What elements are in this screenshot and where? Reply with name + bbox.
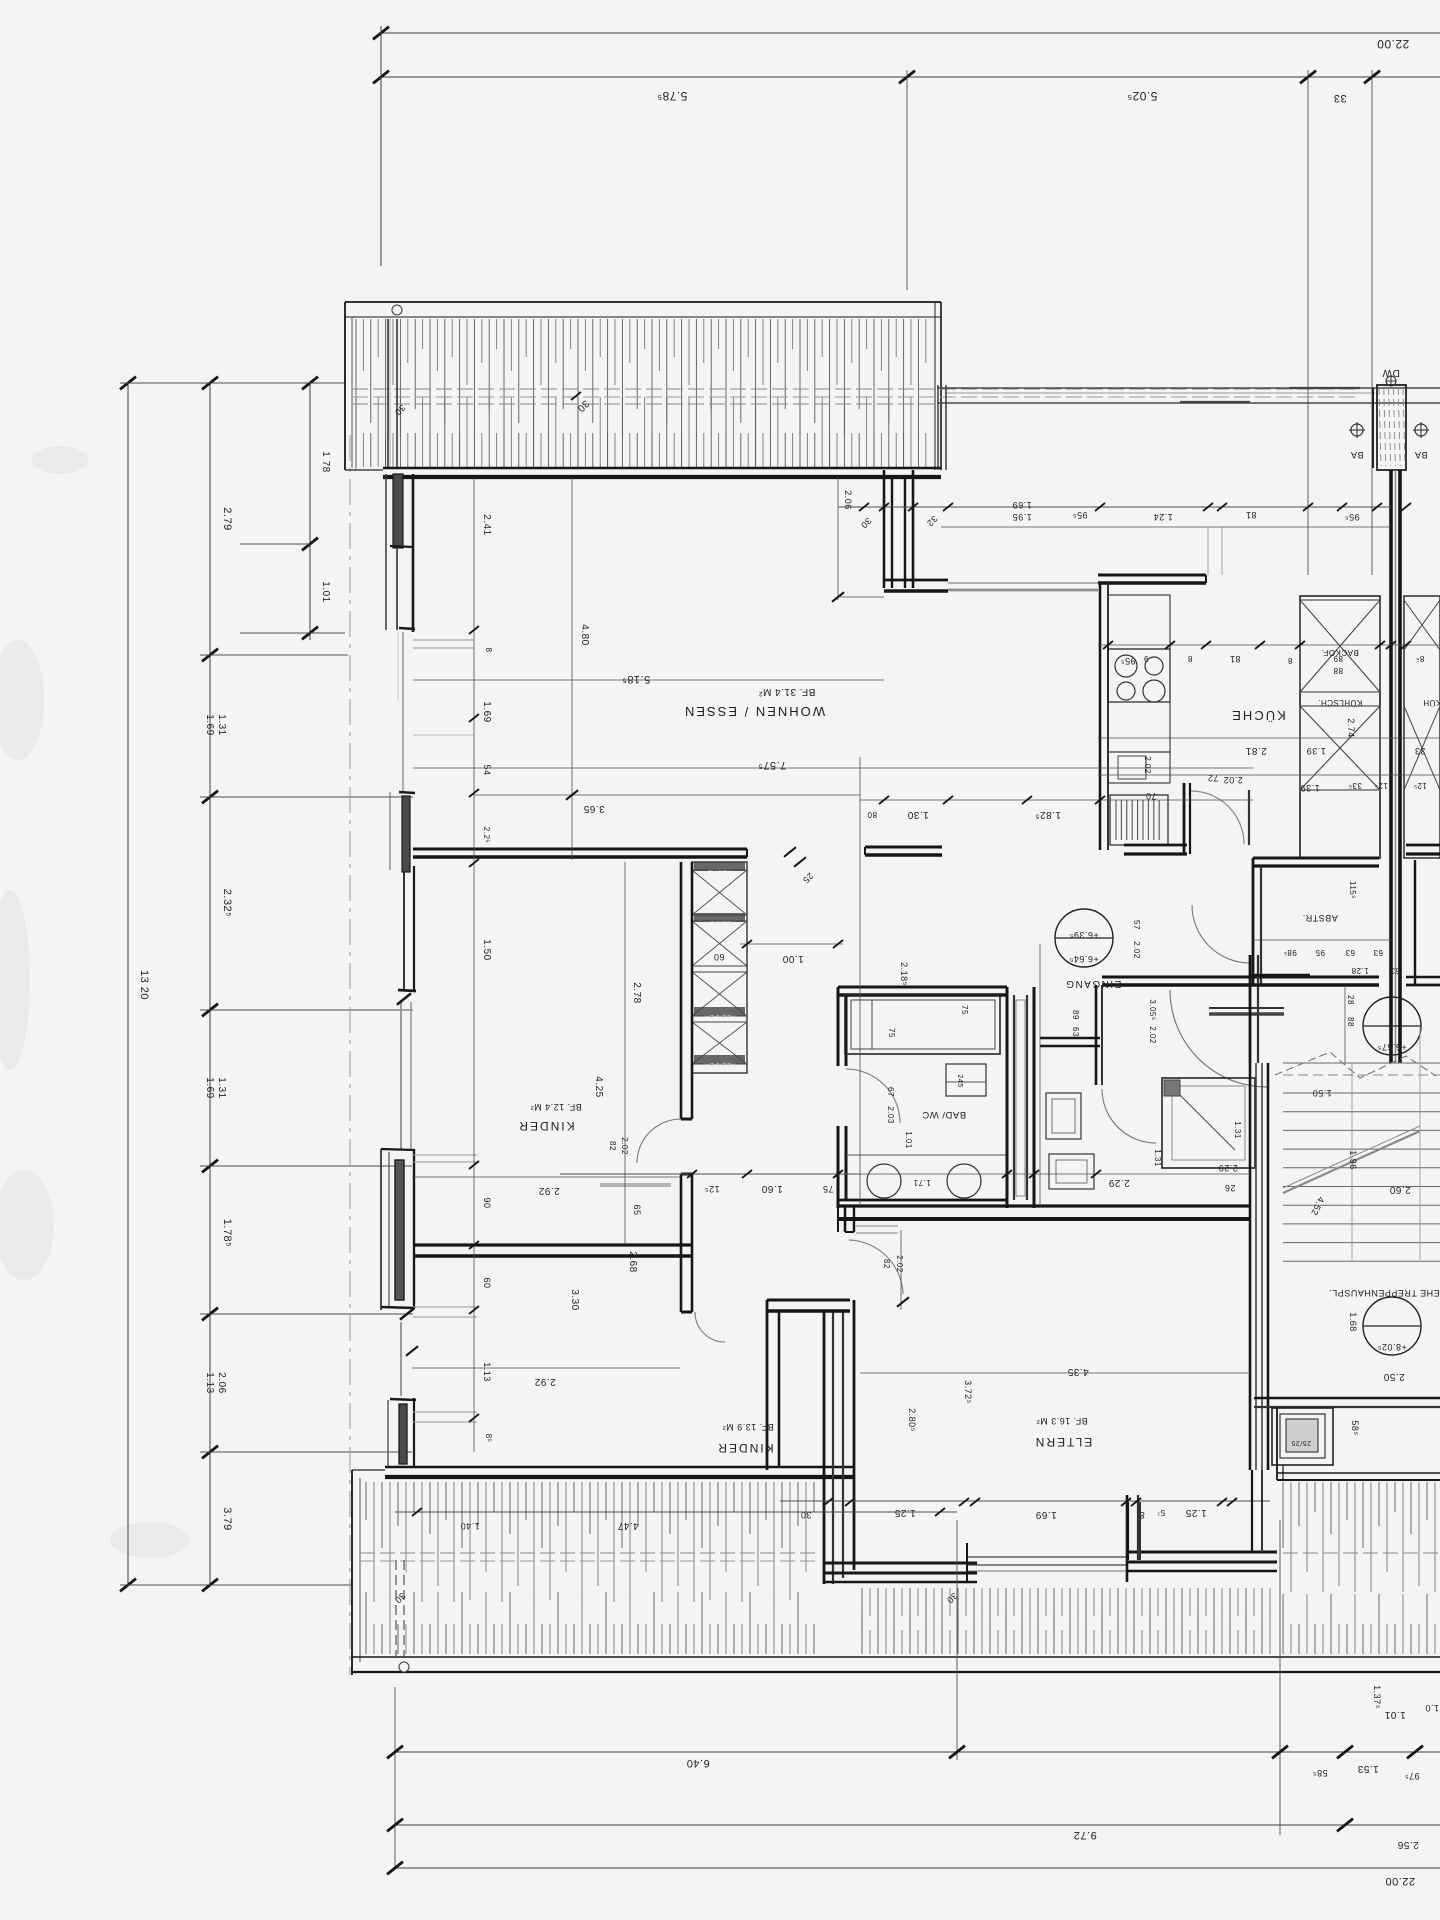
threshold gray band — [600, 1183, 671, 1187]
balcony south dashed rail — [360, 1552, 820, 1554]
bath wc cistern — [946, 1064, 986, 1096]
kitchen stove — [1108, 649, 1170, 702]
stair level circle 8.02 — [1363, 1297, 1421, 1355]
svg-text:80: 80 — [867, 810, 877, 819]
svg-text:1.40: 1.40 — [460, 1521, 480, 1531]
svg-text:1.13: 1.13 — [482, 1362, 492, 1382]
svg-text:EINGANG: EINGANG — [1065, 978, 1122, 989]
svg-text:65: 65 — [632, 1204, 642, 1215]
svg-text:1.69: 1.69 — [1035, 1509, 1056, 1520]
svg-text:ELTERN: ELTERN — [1034, 1435, 1092, 1449]
svg-text:2.02: 2.02 — [895, 1255, 904, 1273]
svg-text:26: 26 — [1224, 1183, 1235, 1193]
wall south of dining toward kitchen — [884, 579, 948, 582]
svg-text:1.30: 1.30 — [907, 809, 928, 820]
svg-text:1.69: 1.69 — [204, 1077, 215, 1098]
bottom extension x395 — [394, 1687, 396, 1870]
bathroom walls — [838, 986, 1007, 989]
svg-text:1.13: 1.13 — [204, 1372, 215, 1393]
scan noise — [0, 446, 190, 1558]
svg-text:98⁵: 98⁵ — [1283, 948, 1297, 957]
svg-text:3.65: 3.65 — [583, 803, 604, 814]
svg-text:1.95: 1.95 — [1012, 512, 1032, 522]
svg-text:BAD/ WC: BAD/ WC — [922, 1109, 966, 1120]
svg-text:7.57⁵: 7.57⁵ — [758, 759, 786, 771]
svg-text:1.0: 1.0 — [1425, 1703, 1439, 1713]
living room 7.57 — [413, 767, 1253, 769]
bath door arc — [846, 1069, 900, 1123]
svg-text:25/25: 25/25 — [1291, 1439, 1311, 1446]
svg-text:115⁵: 115⁵ — [1348, 881, 1357, 899]
svg-text:3.79: 3.79 — [221, 1507, 233, 1530]
dimension line 5.78-5 / 5.02-5 top — [381, 76, 1440, 78]
svg-text:57: 57 — [1132, 920, 1141, 930]
dim 28 86 vertical — [1344, 985, 1346, 1063]
svg-text:81: 81 — [1229, 654, 1240, 664]
svg-text:2.68: 2.68 — [627, 1251, 638, 1272]
extension lines left horizontals — [120, 382, 345, 384]
balcony south dim line — [395, 1511, 957, 1513]
svg-text:2.79: 2.79 — [221, 507, 233, 530]
svg-text:63: 63 — [1071, 1027, 1080, 1037]
eltern door arc — [849, 1240, 903, 1294]
stairwell south wall — [1254, 1397, 1440, 1400]
svg-text:2.18⁵: 2.18⁵ — [899, 962, 909, 986]
south wall eltern bay west corner — [824, 1562, 977, 1565]
chimney — [1272, 1408, 1333, 1465]
svg-text:88: 88 — [1333, 666, 1343, 675]
svg-text:8⁵: 8⁵ — [1416, 654, 1425, 663]
svg-text:3.30: 3.30 — [569, 1289, 580, 1310]
living room south wall east segment — [865, 846, 942, 849]
bathtub — [845, 995, 1000, 1054]
corridor dim line — [560, 1173, 860, 1175]
balcony south hatch middle under bay — [861, 1588, 863, 1636]
svg-text:82: 82 — [608, 1141, 617, 1151]
svg-text:EINZEL- MASSE SIEHE TREPPENHAU: EINZEL- MASSE SIEHE TREPPENHAUSPL. — [1329, 1288, 1440, 1298]
shaft left edge accent — [1372, 388, 1374, 468]
svg-text:KINDER: KINDER — [716, 1441, 773, 1455]
svg-text:89: 89 — [1333, 654, 1343, 663]
balcony railing dashed lines — [352, 388, 1355, 390]
kitchen dim 2.81 — [1098, 737, 1440, 739]
eltern north-west corner walls — [767, 1299, 850, 1302]
svg-text:5.78⁵: 5.78⁵ — [657, 89, 688, 103]
svg-text:1.60: 1.60 — [761, 1183, 782, 1194]
svg-text:BF. 13.9 M²: BF. 13.9 M² — [722, 1422, 774, 1432]
BA fixture left — [1351, 424, 1363, 436]
kitchen north wall — [1098, 574, 1206, 577]
wc door arc — [1102, 1089, 1156, 1143]
west wall faint segment — [402, 632, 404, 792]
svg-text:1.50: 1.50 — [1312, 1088, 1332, 1098]
balcony slab bottom left piece — [345, 469, 383, 471]
svg-text:2.60: 2.60 — [1389, 1184, 1410, 1195]
north facade line accents — [1180, 401, 1250, 403]
svg-text:95⁵: 95⁵ — [1344, 512, 1359, 522]
eltern interior dim line south — [780, 1500, 1270, 1502]
svg-text:8: 8 — [1187, 654, 1192, 663]
svg-text:+8.02⁵: +8.02⁵ — [1377, 1342, 1407, 1352]
svg-text:1.31: 1.31 — [1233, 1121, 1242, 1139]
kitchen appliance 70 — [1110, 795, 1168, 845]
svg-text:60: 60 — [713, 952, 724, 962]
balcony south west edge — [351, 1470, 353, 1675]
svg-text:95: 95 — [1315, 948, 1325, 957]
svg-text:KÜCHE: KÜCHE — [1230, 708, 1286, 723]
svg-text:1.50: 1.50 — [481, 939, 492, 960]
svg-text:1.53: 1.53 — [1357, 1763, 1378, 1774]
bottom dim 22.00 — [395, 1867, 1440, 1869]
bottom dim 9.72 — [395, 1824, 1440, 1826]
west wall of eltern bay — [823, 1311, 826, 1584]
west wall gray pier — [400, 1002, 402, 1150]
svg-text:2.74: 2.74 — [1346, 718, 1356, 738]
svg-text:12⁵: 12⁵ — [1374, 781, 1388, 790]
corridor west wall — [680, 1174, 683, 1312]
north facade upper wall right part (sill lines) — [937, 387, 1440, 389]
svg-text:2.78: 2.78 — [631, 982, 642, 1003]
svg-text:4.35: 4.35 — [1067, 1366, 1088, 1377]
balcony south bottom edge — [352, 1656, 1440, 1658]
svg-text:2.80⁵: 2.80⁵ — [907, 1408, 917, 1432]
extension line x907 — [906, 70, 908, 290]
entrance level circle — [1055, 909, 1113, 967]
svg-text:81: 81 — [1245, 510, 1256, 520]
svg-text:KINDER: KINDER — [517, 1119, 574, 1133]
svg-text:2.29: 2.29 — [1108, 1177, 1129, 1188]
balcony north west edge — [344, 302, 346, 470]
svg-text:BF. 31.4 M²: BF. 31.4 M² — [759, 686, 816, 697]
svg-text:75: 75 — [960, 1005, 969, 1015]
kitchen dim line y645 — [1098, 644, 1440, 646]
svg-text:8: 8 — [1287, 656, 1292, 665]
kinder2 door arc — [695, 1312, 725, 1342]
hall shaft box — [1162, 1078, 1255, 1168]
hall south wall — [838, 1204, 1250, 1207]
svg-text:5.02⁵: 5.02⁵ — [1127, 89, 1158, 103]
svg-text:1.25: 1.25 — [894, 1507, 915, 1518]
svg-text:1.01: 1.01 — [1384, 1709, 1405, 1720]
balcony south hatch left — [365, 1482, 367, 1520]
property dash-dot line — [349, 435, 351, 1675]
east wall of living room — [883, 470, 886, 588]
closet column between living and kinder1 — [692, 862, 747, 1073]
vertical chain x860 — [859, 757, 861, 1206]
svg-text:2.03: 2.03 — [886, 1106, 895, 1124]
bath basin counter — [846, 1154, 1007, 1156]
svg-text:2.92: 2.92 — [534, 1376, 555, 1387]
svg-text:82: 82 — [882, 1259, 891, 1269]
svg-text:12⁵: 12⁵ — [704, 1184, 719, 1194]
kitchen door jambs — [1248, 790, 1250, 845]
balcony north hatch — [355, 319, 357, 469]
svg-text:1.39: 1.39 — [1306, 746, 1326, 756]
west window 3 — [390, 1399, 416, 1400]
stair treads — [1283, 1092, 1440, 1094]
svg-text:63: 63 — [1345, 948, 1355, 957]
extension line x1372 — [1371, 70, 1373, 575]
mirror unit kitchen south wall — [1406, 844, 1440, 847]
extension line x1308 — [1307, 70, 1309, 575]
svg-text:6.40: 6.40 — [686, 1757, 709, 1769]
svg-text:1.25: 1.25 — [1185, 1507, 1206, 1518]
wc washbasin — [1046, 1093, 1081, 1139]
svg-text:ABSTR.: ABSTR. — [1302, 913, 1338, 923]
eltern bay2 west jamb — [1127, 1502, 1129, 1560]
balcony north slab edge — [345, 301, 941, 303]
svg-text:1.00: 1.00 — [782, 953, 803, 964]
svg-text:2.56: 2.56 — [1397, 1839, 1418, 1850]
stair west wall — [1249, 1063, 1252, 1470]
svg-text:3.05⁵: 3.05⁵ — [1148, 999, 1157, 1020]
hall vertical chain — [1039, 944, 1041, 1206]
kitchen south wall — [1124, 844, 1187, 847]
svg-text:5⁷: 5⁷ — [1157, 1508, 1165, 1517]
svg-text:1.69: 1.69 — [481, 701, 492, 722]
stairwell west wall upper — [1249, 955, 1252, 1063]
svg-text:1.31: 1.31 — [216, 714, 227, 735]
stair level circle — [1363, 997, 1421, 1055]
kinder width dims 2.92 — [412, 1176, 680, 1178]
hall door arc to kitchen zone — [1192, 905, 1250, 963]
dim 1.00 corridor top — [740, 943, 843, 945]
svg-text:97⁵: 97⁵ — [1404, 1771, 1419, 1781]
svg-text:90: 90 — [482, 1197, 492, 1208]
svg-text:KLEIDER: KLEIDER — [704, 920, 735, 927]
shaft right of bath — [1006, 987, 1009, 1208]
dim line y795 with 3.65 — [474, 794, 860, 796]
extension line x381 — [380, 26, 382, 266]
living room width dim — [413, 679, 884, 681]
svg-text:1.24: 1.24 — [1153, 512, 1173, 522]
svg-text:22.00: 22.00 — [1377, 37, 1410, 51]
svg-text:60: 60 — [482, 1277, 492, 1288]
balcony south corner circle — [399, 1662, 409, 1672]
svg-text:2.92: 2.92 — [538, 1185, 559, 1196]
svg-text:2.50: 2.50 — [1383, 1371, 1404, 1382]
kitchen sink — [1108, 752, 1170, 783]
svg-text:67: 67 — [886, 1087, 895, 1097]
svg-text:4.80: 4.80 — [579, 624, 590, 645]
svg-text:4.25: 4.25 — [593, 1076, 604, 1097]
kitchen dims lower — [1098, 774, 1440, 776]
svg-text:1.31: 1.31 — [216, 1077, 227, 1098]
svg-text:2.02: 2.02 — [1223, 775, 1243, 785]
entrance door threshold — [1209, 1007, 1284, 1009]
svg-text:+6.67⁵: +6.67⁵ — [1377, 1042, 1407, 1052]
svg-text:1.68: 1.68 — [1348, 1312, 1358, 1332]
svg-text:58⁵: 58⁵ — [1312, 1768, 1327, 1778]
balcony south hatch right — [1282, 1482, 1284, 1548]
svg-text:33: 33 — [1333, 92, 1346, 104]
svg-text:13 20: 13 20 — [138, 970, 150, 1000]
svg-text:+6.64⁵: +6.64⁵ — [1069, 954, 1099, 964]
dim line y507 north — [838, 506, 1391, 508]
sill lines west windows — [413, 1154, 477, 1156]
svg-text:1.01: 1.01 — [904, 1131, 913, 1149]
svg-text:33: 33 — [1414, 746, 1425, 756]
partition kinder1 kinder2 — [413, 1243, 692, 1246]
svg-text:KÜH: KÜH — [1423, 698, 1440, 707]
svg-text:KLEIDER: KLEIDER — [704, 1014, 735, 1021]
oven fridge closet — [1300, 596, 1380, 858]
interior chain x572 — [571, 478, 573, 860]
svg-text:1.82⁵: 1.82⁵ — [1035, 809, 1061, 820]
storage room walls — [1253, 857, 1379, 860]
svg-text:245: 245 — [956, 1074, 963, 1087]
svg-text:75: 75 — [822, 1184, 833, 1194]
svg-text:2.81: 2.81 — [1245, 745, 1266, 756]
svg-text:1.31: 1.31 — [1153, 1149, 1162, 1167]
svg-text:63: 63 — [1373, 948, 1383, 957]
stair landing lines — [1283, 1062, 1440, 1064]
bottom extension x1280 — [1279, 1520, 1281, 1835]
svg-text:REGAL: REGAL — [708, 869, 733, 876]
svg-text:2.02: 2.02 — [1132, 941, 1141, 959]
recess dim 2.06 — [837, 477, 839, 600]
interior chain x474 — [473, 478, 475, 1452]
svg-text:+6.39⁵: +6.39⁵ — [1069, 930, 1099, 940]
wall connecting balcony corner — [937, 385, 939, 470]
kitchen counter mid — [1108, 702, 1170, 752]
dimension chain 13.20 left outer — [127, 383, 129, 1585]
svg-text:2.02: 2.02 — [620, 1137, 629, 1155]
chimney nook wall — [1276, 1408, 1278, 1480]
svg-text:1.78⁵: 1.78⁵ — [221, 1219, 233, 1247]
svg-text:5.18⁵: 5.18⁵ — [622, 673, 650, 685]
svg-text:KLEIDER: KLEIDER — [704, 1062, 735, 1069]
svg-text:2.29: 2.29 — [1218, 1163, 1238, 1173]
balcony north east edge — [934, 302, 936, 470]
dim line y800 — [860, 799, 1253, 801]
svg-text:9.72: 9.72 — [1073, 1829, 1096, 1841]
svg-text:1 78: 1 78 — [320, 451, 331, 472]
south wall eltern bay east corner — [1127, 1551, 1277, 1554]
svg-text:4.47: 4.47 — [617, 1520, 638, 1531]
svg-text:1.96: 1.96 — [1348, 1150, 1358, 1170]
wall thickness tick 25 — [784, 847, 796, 857]
svg-text:2.06: 2.06 — [216, 1372, 227, 1393]
svg-text:3.72⁵: 3.72⁵ — [963, 1380, 973, 1404]
DW vent shaft — [1377, 385, 1406, 470]
svg-text:95⁵: 95⁵ — [1120, 656, 1135, 666]
svg-text:1.37⁵: 1.37⁵ — [1372, 1685, 1382, 1709]
dim line y527 second — [941, 526, 1391, 528]
exterior wall north of living room — [383, 467, 941, 470]
svg-text:1.69: 1.69 — [1012, 500, 1032, 510]
dimension chain left inner — [209, 383, 211, 1585]
svg-text:2.41: 2.41 — [481, 514, 492, 535]
kitchen door arc — [1191, 791, 1244, 844]
svg-text:28: 28 — [1346, 995, 1355, 1005]
svg-text:12⁵: 12⁵ — [1413, 781, 1427, 790]
eltern west jamb — [844, 1206, 847, 1232]
svg-text:89: 89 — [1071, 1010, 1080, 1020]
svg-text:WOHNEN / ESSEN: WOHNEN / ESSEN — [683, 704, 825, 719]
dim line y1174 extension to bath — [860, 1173, 1250, 1175]
balcony corner circle — [392, 305, 402, 315]
entrance door arc — [1170, 990, 1267, 1087]
svg-text:8⁵: 8⁵ — [484, 1434, 493, 1443]
balcony door post — [387, 319, 389, 468]
svg-text:70: 70 — [1145, 791, 1156, 801]
stair vertical guide — [1351, 1063, 1353, 1260]
wc wall — [1040, 1037, 1100, 1040]
svg-text:1.01: 1.01 — [320, 581, 331, 602]
svg-text:72: 72 — [1207, 773, 1218, 783]
party wall — [1389, 470, 1393, 1063]
stair zigzag cut — [1275, 1052, 1436, 1078]
dimension line 22.00 overall top — [381, 32, 1440, 34]
svg-text:75: 75 — [887, 1028, 896, 1038]
balcony south door dashes — [395, 1560, 397, 1656]
dimension chain 1.78 / 1.01 — [309, 383, 311, 640]
mirror closet right unit — [1404, 596, 1440, 858]
south thin wall east — [1277, 1472, 1440, 1474]
kitchen west wall — [1099, 583, 1102, 850]
svg-text:2.32⁵: 2.32⁵ — [221, 889, 233, 917]
living room south wall west segment — [413, 848, 747, 851]
west wall window 2 — [399, 792, 415, 793]
bottom extension x957 — [956, 1520, 958, 1760]
west wall window 1 — [385, 474, 387, 630]
west wall gray pier 2 — [400, 1322, 402, 1396]
abstr dims — [1253, 939, 1391, 941]
svg-text:1.71: 1.71 — [913, 1178, 931, 1187]
kitchen window reveal lines — [1207, 527, 1209, 575]
BA fixture right — [1415, 424, 1427, 436]
svg-text:1.28: 1.28 — [1351, 966, 1369, 975]
svg-text:63: 63 — [1390, 966, 1400, 975]
eltern dims — [860, 1372, 1250, 1374]
svg-text:54: 54 — [482, 764, 492, 775]
svg-text:BF. 12.4 M²: BF. 12.4 M² — [530, 1102, 582, 1112]
svg-text:8: 8 — [484, 648, 493, 653]
eltern south window — [967, 1556, 1127, 1558]
svg-text:9: 9 — [1143, 654, 1148, 663]
svg-text:2.02: 2.02 — [1143, 756, 1152, 774]
svg-text:2.02: 2.02 — [1148, 1026, 1157, 1044]
svg-text:58⁵: 58⁵ — [1350, 1420, 1360, 1435]
wc toilet — [1049, 1154, 1094, 1189]
kinder1 east wall — [680, 862, 683, 1119]
svg-text:95⁵: 95⁵ — [1072, 510, 1087, 520]
interior chain x625 kinder1 — [624, 862, 626, 1245]
south wall kinder rooms — [385, 1466, 854, 1469]
balcony south slab top left piece — [352, 1469, 385, 1471]
stair walking line — [1283, 1131, 1420, 1193]
svg-text:BF. 16.3 M²: BF. 16.3 M² — [1036, 1416, 1088, 1426]
west window bay kinder1 — [380, 1149, 382, 1310]
svg-text:22.00: 22.00 — [1385, 1875, 1415, 1887]
bottom dim 6.40 — [395, 1751, 1440, 1753]
opening lintel to entrance court — [948, 582, 1098, 584]
kinder1 door arc — [637, 1119, 681, 1163]
svg-text:2.2⁵: 2.2⁵ — [482, 827, 491, 843]
svg-text:1.39: 1.39 — [1300, 783, 1320, 793]
svg-text:33⁵: 33⁵ — [1348, 781, 1362, 790]
svg-text:BA: BA — [1350, 450, 1363, 460]
svg-text:BA: BA — [1414, 450, 1427, 460]
kitchen counter column — [1108, 595, 1170, 649]
svg-text:1.69: 1.69 — [204, 714, 215, 735]
stair wall to bay — [1251, 1470, 1253, 1552]
svg-text:88: 88 — [1346, 1017, 1355, 1027]
